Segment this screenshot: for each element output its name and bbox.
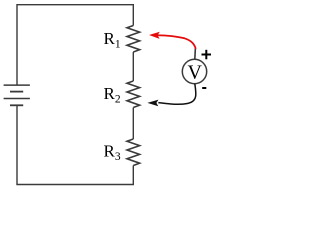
black probe arrowhead at node between R1 and R2 bbox=[147, 100, 158, 107]
voltmeter M1 top lead stub bbox=[194, 48, 197, 60]
battery B1 bbox=[4, 85, 30, 105]
svg-text:R2: R2 bbox=[104, 84, 121, 106]
resistor R3 bbox=[127, 139, 140, 165]
red probe arrowhead at node above R1 bbox=[149, 32, 160, 39]
voltmeter minus polarity mark bbox=[202, 87, 206, 89]
resistor R2 bbox=[127, 81, 140, 108]
voltmeter plus polarity mark bbox=[202, 50, 212, 60]
voltmeter M1 body circle bbox=[182, 59, 206, 83]
svg-text:R3: R3 bbox=[104, 141, 121, 163]
svg-text:V: V bbox=[187, 62, 202, 84]
wire: battery negative terminal down, across bottom, up to R3 bbox=[17, 105, 133, 184]
resistor R1 bbox=[127, 26, 140, 53]
wire: R1 to R2 bbox=[132, 52, 134, 81]
wire: R2 to R3 bbox=[132, 108, 134, 140]
voltmeter M1 bottom lead stub and black probe lead to node between R1 and R2 bbox=[158, 84, 196, 105]
red probe lead to node above R1 bbox=[157, 35, 196, 49]
wire: battery positive terminal up, across top, down to R1 bbox=[17, 5, 133, 85]
svg-text:R1: R1 bbox=[104, 29, 121, 51]
